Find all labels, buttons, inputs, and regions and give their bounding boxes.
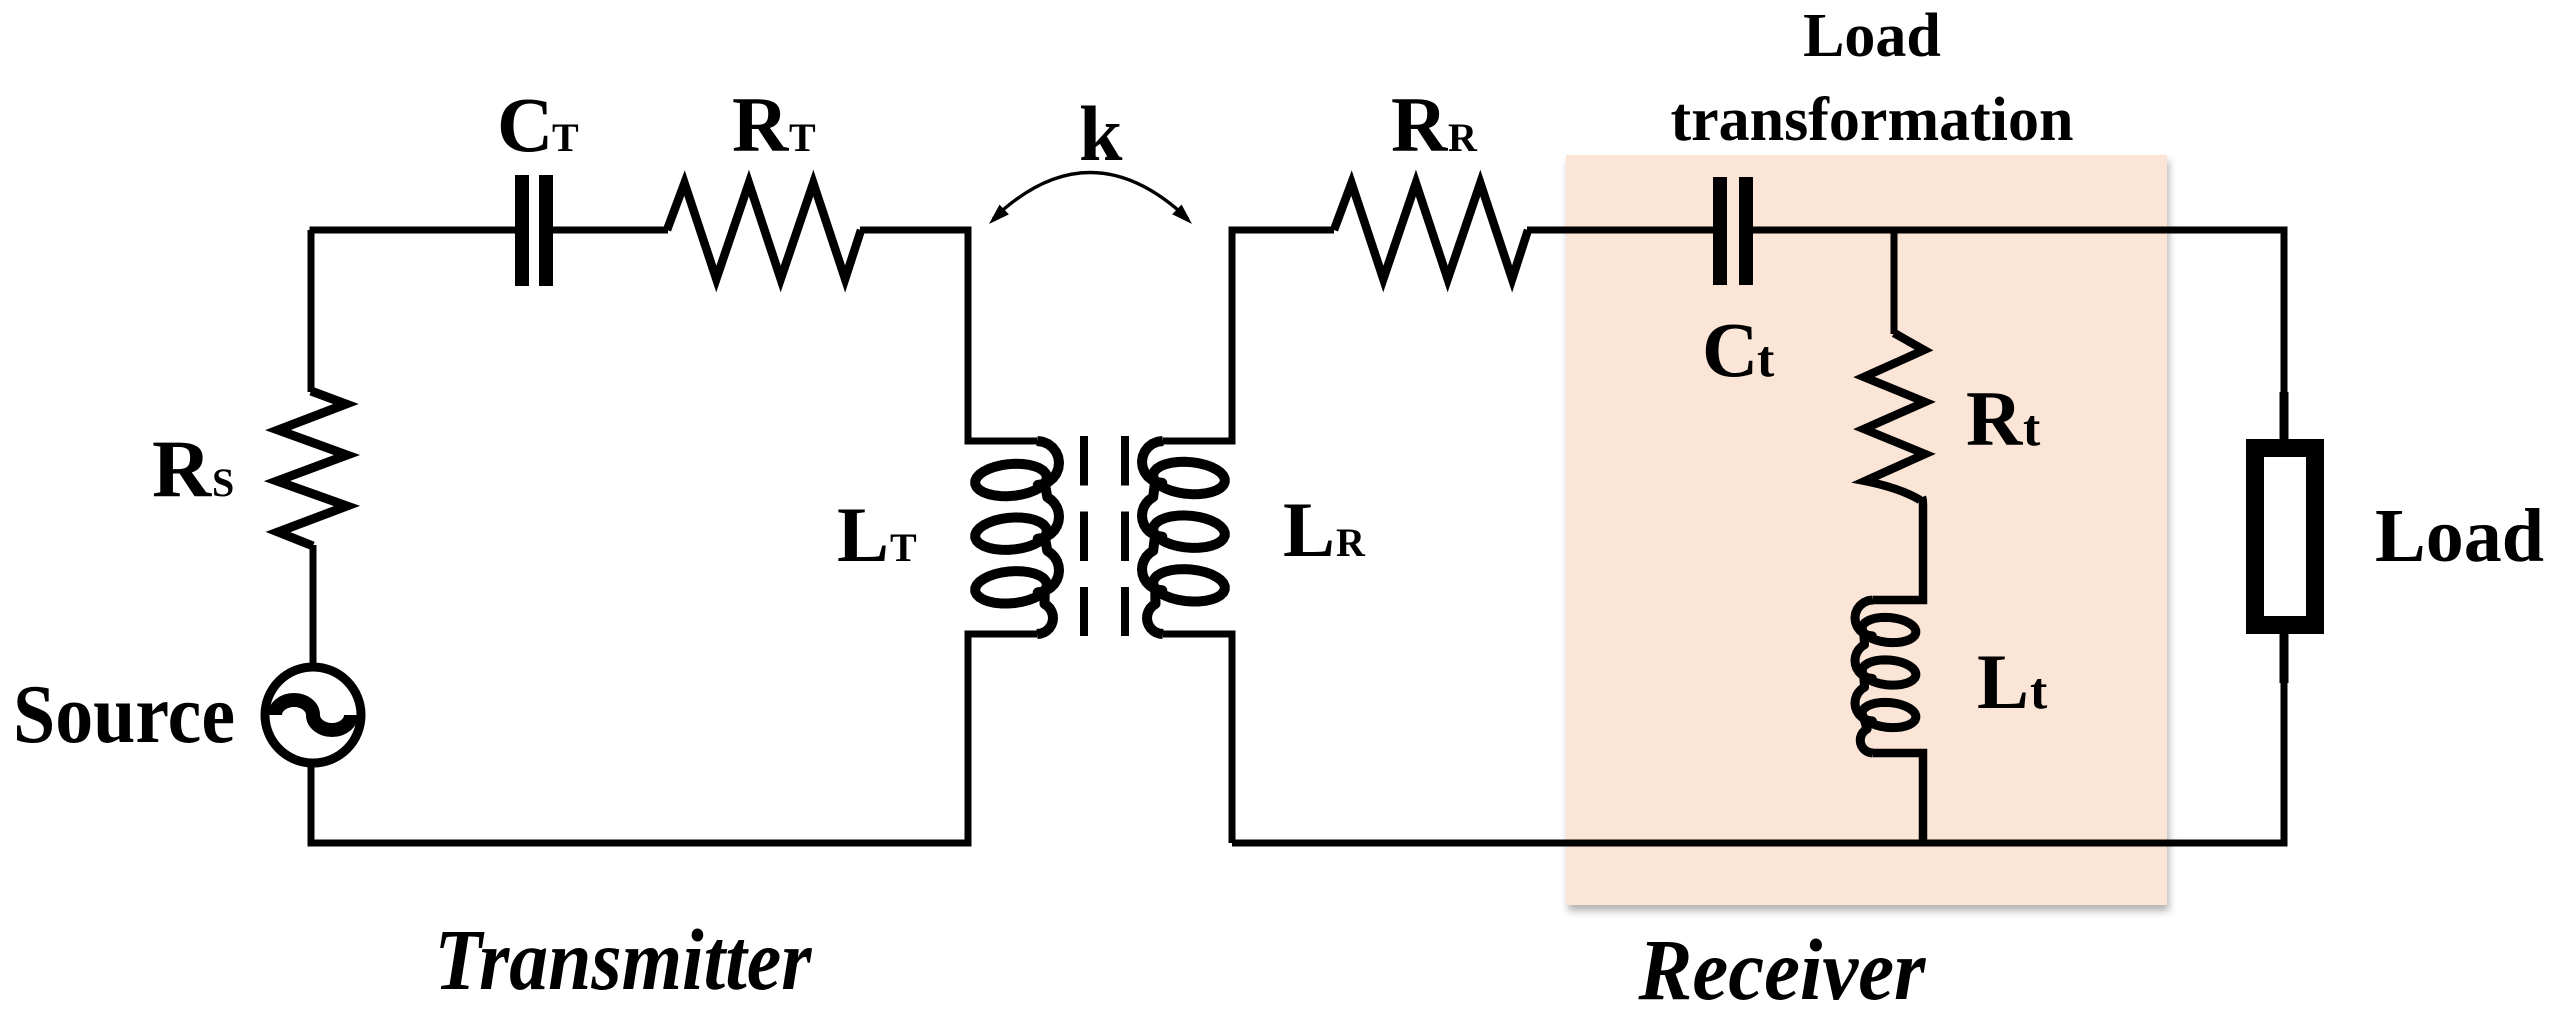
svg-text:R: R — [1336, 520, 1366, 565]
wire LR top — [1163, 230, 1334, 441]
inductor LT — [975, 441, 1059, 634]
wire RR to Ct — [1527, 227, 1714, 234]
wire LT bottom — [311, 634, 1037, 843]
wire RT to LT top — [860, 230, 1037, 441]
capacitor CT right plate — [539, 175, 553, 286]
capacitor Ct left plate — [1713, 177, 1727, 285]
svg-text:Receiver: Receiver — [1638, 921, 1927, 1016]
svg-text:C: C — [497, 81, 553, 168]
coupling arc k — [993, 173, 1188, 220]
resistor RR — [1334, 183, 1528, 279]
svg-text:R: R — [1966, 375, 2024, 462]
transformer core dashes left — [1080, 436, 1088, 636]
k arrowhead right — [1172, 205, 1192, 225]
svg-text:S: S — [212, 460, 234, 505]
svg-text:Load: Load — [2375, 494, 2544, 578]
svg-text:Transmitter: Transmitter — [435, 911, 813, 1008]
svg-text:t: t — [1757, 331, 1775, 388]
svg-text:R: R — [1448, 115, 1478, 160]
resistor RS — [277, 391, 347, 546]
svg-text:R: R — [1391, 81, 1449, 168]
transformer core dashes right — [1121, 436, 1129, 636]
capacitor CT left plate — [515, 175, 529, 286]
svg-text:L: L — [837, 491, 889, 578]
svg-text:T: T — [890, 525, 917, 570]
svg-text:L: L — [1977, 638, 2029, 725]
svg-text:L: L — [1283, 486, 1335, 573]
svg-text:t: t — [2030, 663, 2048, 720]
wire Rt to Lt — [1873, 497, 1923, 600]
svg-text:Load: Load — [1803, 2, 1941, 70]
svg-text:R: R — [152, 423, 212, 514]
source V1 — [265, 667, 361, 763]
inductor Lt — [1855, 600, 1916, 753]
svg-text:k: k — [1079, 90, 1123, 177]
wire top-left rail — [313, 230, 516, 234]
load lead top — [2280, 392, 2289, 444]
k arrowhead left — [989, 205, 1009, 224]
svg-text:transformation: transformation — [1671, 86, 2074, 154]
svg-text:T: T — [789, 115, 816, 160]
wire load to bottom rail — [1232, 680, 2284, 843]
load lead bottom — [2280, 630, 2289, 683]
resistor RT — [667, 183, 861, 279]
capacitor Ct right plate — [1739, 177, 1753, 285]
wire Ct to load corner — [1753, 230, 2284, 400]
load resistor body — [2255, 448, 2315, 625]
resistor Rt — [1864, 333, 1925, 500]
svg-text:R: R — [732, 81, 790, 168]
svg-text:T: T — [552, 115, 579, 160]
wire CT to RT — [553, 227, 668, 234]
wire source to RS — [310, 545, 317, 667]
wire junction to Rt — [1891, 230, 1898, 334]
svg-text:Source: Source — [13, 668, 235, 761]
svg-text:t: t — [2023, 400, 2041, 457]
wire Lt bottom — [1873, 753, 1923, 843]
wire RS to top-left corner — [308, 230, 315, 392]
svg-text:C: C — [1702, 306, 1758, 393]
wire LR bottom — [1163, 634, 1232, 843]
load transformation shaded region — [1566, 155, 2167, 905]
source sine symbol — [275, 700, 351, 730]
inductor LR — [1142, 441, 1225, 634]
